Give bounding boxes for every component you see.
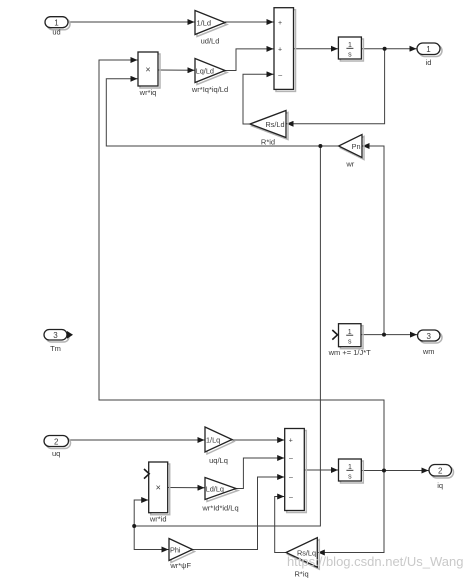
svg-text:id: id — [426, 58, 432, 67]
gain U3 Rs/Ld (left pointing) — [250, 111, 288, 140]
wire gain Rs/Lq out up to sum2 minus3 — [275, 497, 286, 553]
svg-text:wr*id: wr*id — [149, 515, 167, 524]
wire gain Ld/Lq up to sum2 minus1 — [236, 458, 284, 489]
wire I3 out to node iq and outport iq — [361, 470, 428, 472]
wire I1 out to node id and outport id — [361, 48, 416, 50]
svg-text:1/Lq: 1/Lq — [206, 436, 220, 445]
svg-text:ud/Ld: ud/Ld — [201, 37, 220, 46]
svg-text:Lq/Ld: Lq/Ld — [196, 66, 214, 75]
svg-text:s: s — [348, 52, 352, 59]
outport 3 wm — [418, 330, 443, 343]
wire iq feedback down to gain Rs/Lq — [318, 471, 384, 553]
svg-text:–: – — [289, 494, 293, 501]
svg-text:wr*Iq*iq/Ld: wr*Iq*iq/Ld — [191, 85, 228, 94]
product M2 wr*id — [144, 462, 170, 515]
svg-text:wm: wm — [422, 347, 435, 356]
wire uq to gain 1/Lq — [69, 439, 205, 441]
integrator I2 wm 1/s — [332, 324, 363, 349]
svg-text:Phi: Phi — [170, 545, 181, 554]
wire wm node up to gain Pn input — [363, 146, 385, 335]
node wr junction dot — [318, 144, 322, 148]
gain U6 Ld/Lq — [205, 478, 238, 502]
gain U4 Pn (left pointing) — [339, 135, 364, 160]
wire wr branch down to node wr2 — [134, 146, 320, 526]
svg-text:2: 2 — [438, 467, 443, 476]
svg-text:wm += 1/J*T: wm += 1/J*T — [328, 348, 372, 357]
wire gain Rs/Ld out up to sum1 minus — [243, 74, 274, 124]
svg-text:R*id: R*id — [261, 138, 275, 147]
svg-text:R*iq: R*iq — [295, 570, 309, 579]
svg-text:2: 2 — [54, 437, 59, 446]
svg-text:+: + — [289, 438, 293, 445]
gain U8 Rs/Lq (left pointing) — [286, 538, 319, 570]
wire integrator wm out to outport wm — [361, 334, 417, 336]
wire gain Phi out up to sum2 minus2 — [193, 477, 285, 550]
wire gain 1/Ld to sum1 plus1 — [225, 21, 274, 23]
gain U5 1/Lq — [205, 427, 234, 454]
svg-text:Pn: Pn — [352, 142, 361, 151]
node id junction dot — [383, 47, 387, 51]
svg-text:iq: iq — [437, 481, 443, 490]
svg-text:–: – — [289, 475, 293, 482]
wire sum2 out to integrator I3 — [304, 469, 338, 471]
svg-text:+: + — [278, 47, 282, 54]
svg-text:1/Ld: 1/Ld — [197, 19, 212, 28]
svg-text:–: – — [289, 456, 293, 463]
wire ud to gain 1/Ld — [68, 21, 195, 23]
outport 2 iq — [429, 465, 454, 479]
wire node wr2 down to gain Phi input — [134, 526, 168, 550]
svg-text:1: 1 — [426, 45, 431, 54]
wire iq feedback long loop to product wr*iq input1 — [99, 60, 384, 471]
wire gain 1/Lq to sum2 plus — [232, 439, 284, 441]
svg-text:–: – — [278, 72, 282, 79]
svg-text:https://blog.csdn.net/Us_Wang: https://blog.csdn.net/Us_Wang — [287, 554, 464, 569]
node wr2 junction dot — [132, 524, 136, 528]
wire sum1 out to integrator I1 — [294, 48, 338, 50]
svg-text:3: 3 — [426, 332, 431, 341]
inport 1 ud — [45, 17, 70, 30]
wire id feedback down to gain Rs/Ld — [287, 49, 385, 124]
svg-text:wr*iq: wr*iq — [139, 88, 157, 97]
svg-text:1: 1 — [348, 42, 352, 49]
inport 2 uq — [44, 436, 71, 449]
gain U7 Phi (right pointing) — [169, 539, 195, 563]
inport 3 Tm — [44, 330, 73, 343]
wire product wr*iq to gain Lq/Ld — [158, 69, 195, 71]
product M1 wr*iq — [138, 52, 160, 88]
wire product wr*id to gain Ld/Lq — [168, 487, 205, 489]
svg-text:s: s — [348, 339, 352, 346]
integrator I1 1/s — [338, 37, 363, 61]
svg-text:ud: ud — [52, 28, 60, 37]
svg-text:Rs/Ld: Rs/Ld — [265, 120, 284, 129]
integrator I3 1/s — [339, 459, 364, 483]
node iq junction dot — [382, 469, 386, 473]
svg-text:+: + — [278, 20, 282, 27]
svg-text:uq: uq — [52, 449, 60, 458]
svg-text:uq/Lq: uq/Lq — [209, 456, 228, 465]
svg-text:Tm: Tm — [50, 344, 61, 353]
wire node wr2 up to product wr*id input2 — [134, 500, 148, 526]
svg-text:1: 1 — [348, 464, 352, 471]
sum S2 — [285, 429, 307, 513]
svg-text:×: × — [156, 483, 161, 493]
svg-text:Ld/Lq: Ld/Lq — [206, 484, 224, 493]
svg-text:wr*Id*id/Lq: wr*Id*id/Lq — [201, 504, 238, 513]
wire gain Lq/Ld up to sum1 plus2 — [225, 49, 274, 71]
svg-text:1: 1 — [54, 19, 59, 28]
sum S1 — [274, 8, 296, 92]
wire wr from gain Pn to product wr*iq input2 — [106, 79, 338, 146]
node wm junction dot — [382, 333, 386, 337]
svg-text:wr: wr — [345, 160, 354, 169]
svg-text:3: 3 — [53, 331, 58, 340]
svg-text:×: × — [145, 65, 150, 75]
svg-text:s: s — [348, 474, 352, 481]
svg-text:wr*ψF: wr*ψF — [169, 561, 191, 570]
gain U2 Lq/Ld — [195, 59, 227, 85]
outport 1 id — [417, 43, 442, 57]
gain U1 1/Ld — [195, 11, 227, 37]
